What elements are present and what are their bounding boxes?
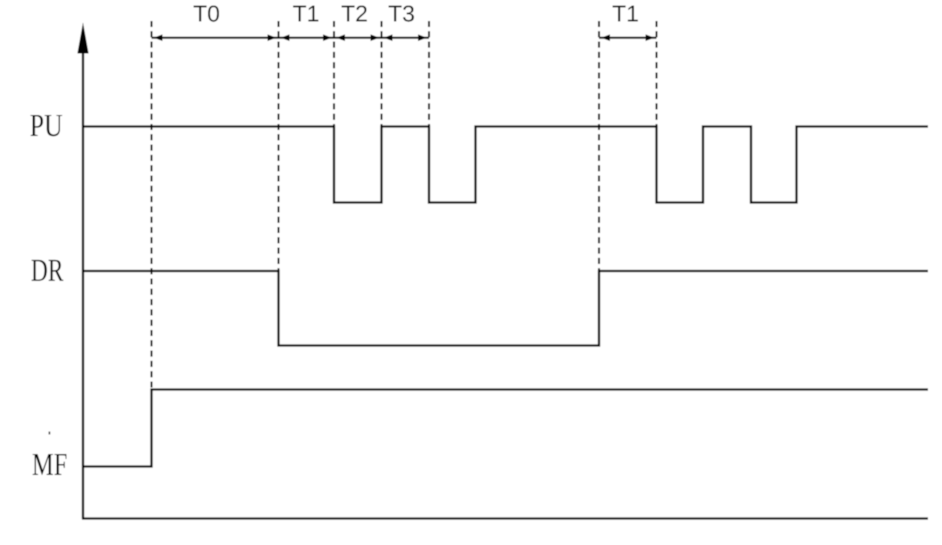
dashed marker line x=429	[428, 21, 430, 126]
label T0	[194, 5, 219, 21]
T2 dimension line	[334, 37, 382, 39]
label PU	[30, 115, 62, 136]
T1 dimension line	[279, 37, 335, 39]
dashed marker line x=599	[598, 21, 600, 270]
dashed marker line x=278.5	[277, 21, 279, 270]
y-axis arrowhead	[77, 23, 88, 54]
label DR	[31, 260, 63, 281]
label T2	[342, 5, 367, 21]
dashed marker line x=151.5	[150, 21, 152, 389]
dashed marker line x=381.5	[380, 21, 382, 126]
MF waveform	[82, 390, 928, 467]
T0 dimension line	[152, 37, 279, 39]
DR waveform	[82, 271, 928, 346]
y-axis	[82, 50, 84, 519]
second T1 dimension line	[599, 37, 657, 39]
label T1 (right)	[613, 6, 638, 22]
stray speck	[49, 432, 51, 435]
PU waveform	[82, 127, 928, 203]
label T3	[389, 5, 414, 21]
T3 dimension line	[382, 37, 430, 39]
label T1	[293, 6, 318, 22]
dashed marker line x=656.5	[655, 21, 657, 126]
label MF	[33, 454, 67, 475]
time axis baseline	[82, 517, 928, 519]
dashed marker line x=334	[333, 21, 335, 126]
